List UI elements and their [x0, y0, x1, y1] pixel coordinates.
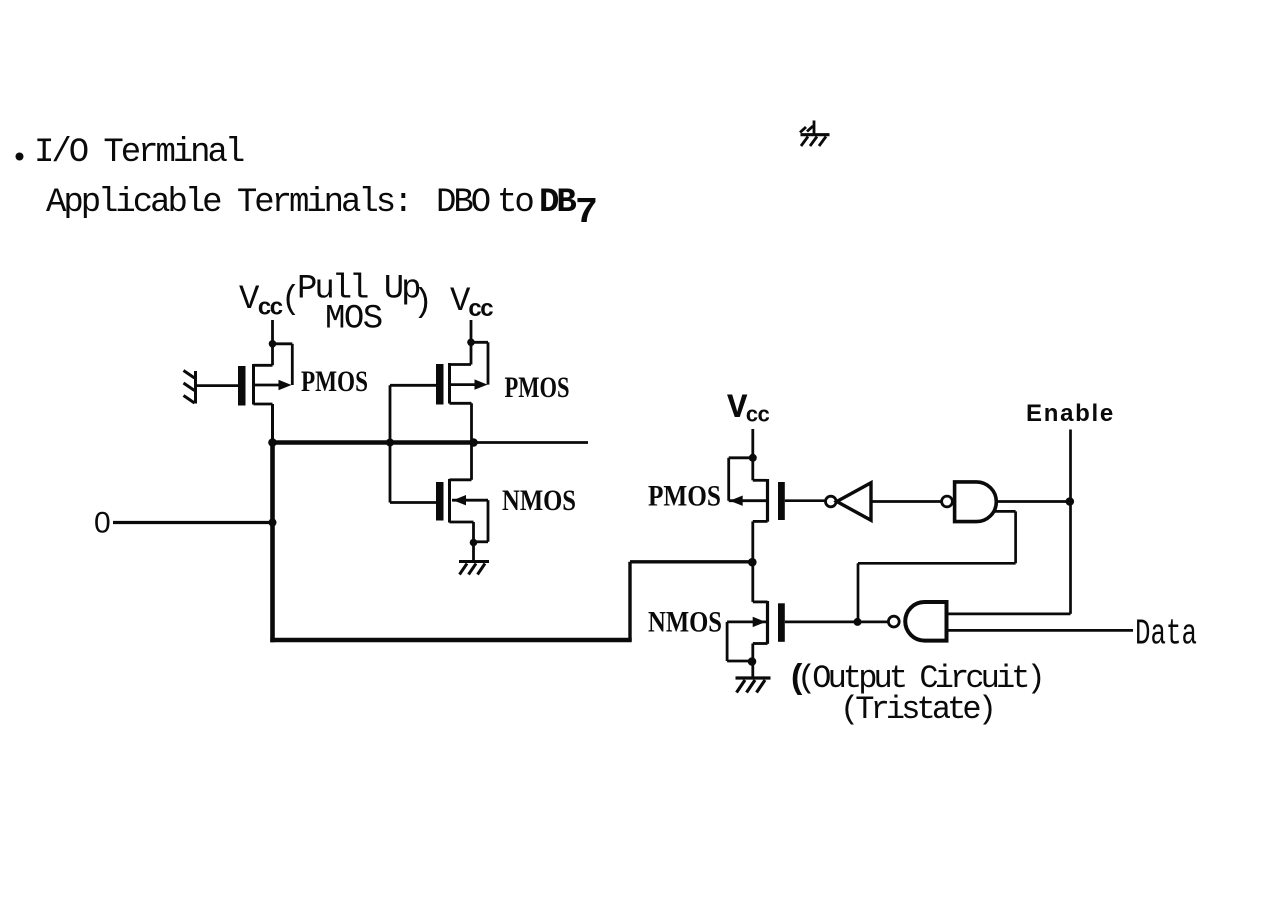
svg-text:NMOS: NMOS [648, 606, 722, 639]
svg-text:): ) [413, 284, 433, 321]
svg-text:(Tristate): (Tristate) [840, 691, 993, 728]
svg-text:PMOS: PMOS [505, 371, 570, 404]
svg-text:PMOS: PMOS [648, 480, 721, 513]
svg-text:DBO: DBO [436, 184, 490, 222]
svg-text:Enable: Enable [1026, 400, 1115, 427]
svg-text:0: 0 [94, 507, 111, 540]
svg-text:Applicable Terminals:: Applicable Terminals: [46, 184, 410, 222]
svg-text:cc: cc [746, 404, 770, 429]
svg-text:NMOS: NMOS [502, 484, 576, 517]
svg-text:Data: Data [1135, 614, 1197, 655]
svg-text:I/O Terminal: I/O Terminal [34, 134, 244, 172]
svg-text:DB: DB [539, 184, 576, 222]
svg-text:cc: cc [468, 297, 493, 324]
svg-text:cc: cc [258, 296, 283, 323]
svg-text:to: to [497, 184, 533, 222]
svg-text:7: 7 [575, 192, 598, 233]
svg-text:PMOS: PMOS [301, 365, 368, 398]
svg-text:MOS: MOS [325, 301, 382, 339]
